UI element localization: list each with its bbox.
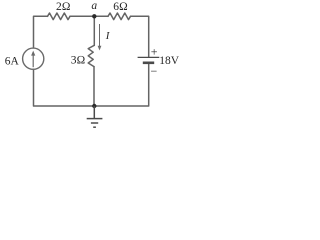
svg-text:6Ω: 6Ω [113,1,128,13]
resistor R 3ohm zigzag [88,45,94,66]
svg-text:6A: 6A [5,56,20,68]
current source arrow [31,51,35,68]
wire bottom-right segment [34,64,149,106]
svg-text:3Ω: 3Ω [71,55,86,67]
svg-text:−: − [151,64,158,78]
ground [87,106,103,127]
resistor R 6ohm zigzag [108,13,130,20]
wire top-left segment [34,16,48,48]
svg-text:I: I [105,30,111,42]
battery V1 short plate [143,61,154,64]
resistor R 2ohm zigzag [48,13,71,20]
wire from 2ohm to node a [70,15,108,17]
svg-text:2Ω: 2Ω [56,1,71,13]
bottom junction dot [92,104,96,108]
svg-text:+: + [151,44,158,58]
current source 6A circle [23,48,44,69]
wire top-right segment [131,16,149,56]
current arrow I [98,24,102,51]
node a junction dot [92,14,96,18]
wire 3ohm branch lower [93,67,95,106]
svg-text:18V: 18V [159,55,180,67]
battery V1 long plate [138,56,160,58]
svg-text:a: a [91,0,97,12]
wire 3ohm branch upper [93,16,95,45]
